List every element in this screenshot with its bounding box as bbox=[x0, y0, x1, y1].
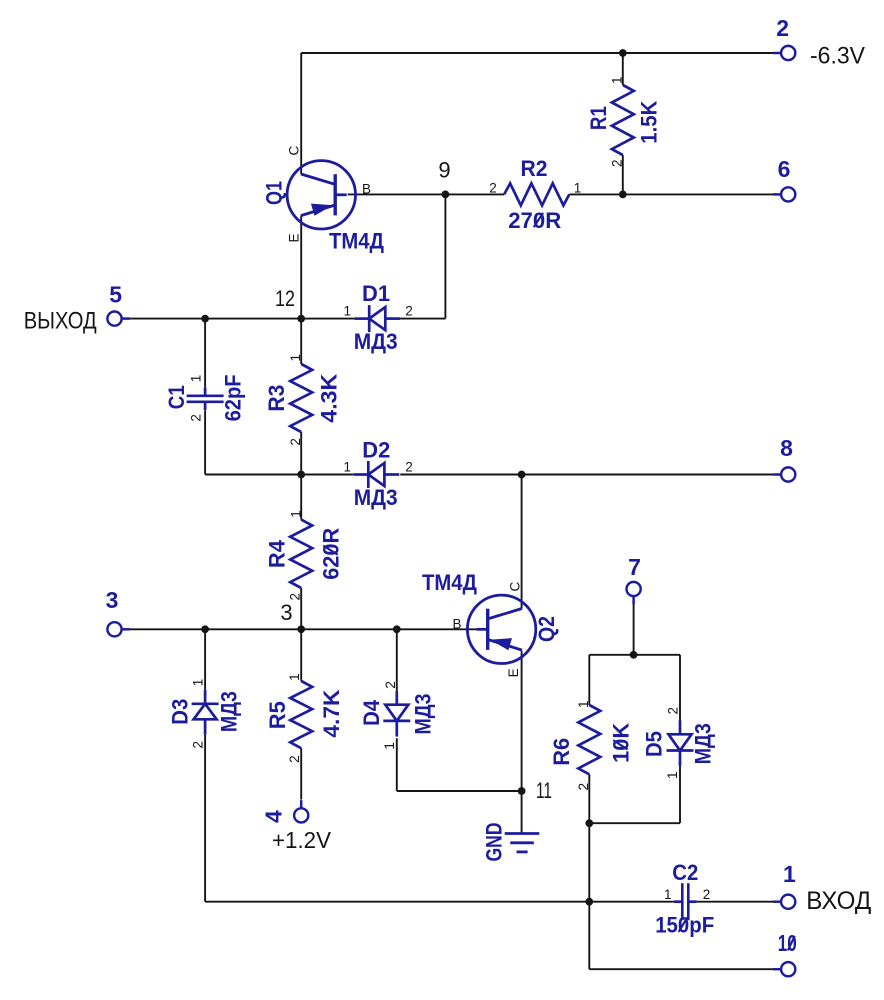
wire R6/D5 bottom rail bbox=[589, 822, 680, 824]
terminal 4 (+1.2V) bbox=[261, 800, 332, 853]
svg-text:10: 10 bbox=[778, 930, 797, 956]
capacitor C2 150pF bbox=[655, 860, 714, 938]
junction node 12 bbox=[297, 315, 305, 323]
svg-text:D4: D4 bbox=[359, 699, 384, 726]
terminal 10 bbox=[773, 930, 797, 976]
R6 ref label bbox=[549, 738, 574, 766]
terminal pad 6 bbox=[773, 193, 782, 196]
svg-text:E: E bbox=[287, 233, 302, 242]
svg-text:1: 1 bbox=[665, 771, 680, 779]
junction input net tap bbox=[585, 898, 593, 906]
wire D2 rail left part bbox=[205, 474, 354, 476]
svg-text:2: 2 bbox=[405, 460, 413, 475]
D3 ref label bbox=[168, 699, 193, 725]
R1 ref label bbox=[586, 106, 611, 130]
D1 ref label bbox=[362, 281, 390, 306]
svg-text:МД3: МД3 bbox=[411, 694, 436, 735]
terminal 2 (-6.3V) bbox=[773, 15, 865, 70]
C1 ref label bbox=[164, 385, 189, 409]
svg-text:11: 11 bbox=[536, 778, 552, 803]
wire D4 rail to node 11 bbox=[397, 790, 522, 792]
D3 pin 2 number bbox=[191, 741, 206, 749]
svg-text:-6.3V: -6.3V bbox=[810, 43, 865, 70]
resistor R3 4.3K bbox=[264, 354, 342, 446]
svg-text:R1: R1 bbox=[586, 106, 611, 130]
terminal pad 5 bbox=[121, 317, 130, 320]
C2 value 150pF label bbox=[655, 913, 714, 938]
junction node 3 bbox=[297, 625, 305, 633]
R1 pin 1 number bbox=[609, 76, 624, 84]
wire R6 to bottom rail bbox=[588, 774, 590, 823]
resistor R4 620R bbox=[264, 510, 343, 600]
wire R3 node to R4 bbox=[300, 475, 302, 520]
wire Q1 collector drop bbox=[300, 53, 302, 174]
svg-text:2: 2 bbox=[287, 755, 302, 763]
Q2 pin E name bbox=[506, 668, 521, 677]
Q2 pin B name bbox=[452, 616, 461, 631]
diode D4 MD3 bbox=[359, 681, 436, 750]
svg-text:D2: D2 bbox=[362, 437, 390, 462]
svg-text:2: 2 bbox=[776, 15, 789, 41]
svg-text:4.7K: 4.7K bbox=[319, 689, 344, 737]
junction node 11 bbox=[518, 787, 526, 795]
svg-text:2: 2 bbox=[189, 414, 204, 422]
R6 pin 2 number bbox=[576, 783, 591, 791]
svg-text:1: 1 bbox=[289, 510, 304, 518]
svg-text:1: 1 bbox=[189, 375, 204, 383]
Q2 pin C name bbox=[507, 582, 522, 592]
Q2 ref label bbox=[534, 616, 559, 642]
svg-text:ВЫХОД: ВЫХОД bbox=[24, 308, 97, 335]
D3 value MD3 label bbox=[217, 691, 242, 732]
net name +1.2V bbox=[272, 827, 332, 853]
wire input rail down to terminal 10 rail bbox=[588, 902, 590, 970]
terminal 1 (VHOD input) bbox=[773, 861, 871, 915]
svg-text:2: 2 bbox=[383, 681, 398, 689]
wire D2 rail to terminal 8 bbox=[400, 474, 773, 476]
svg-text:R4: R4 bbox=[264, 539, 289, 568]
svg-text:2: 2 bbox=[610, 159, 625, 167]
svg-text:ТМ4Д: ТМ4Д bbox=[422, 570, 477, 595]
svg-text:C1: C1 bbox=[164, 385, 189, 409]
svg-text:B: B bbox=[452, 616, 461, 631]
D2 pin 1 number bbox=[344, 460, 352, 475]
svg-text:1: 1 bbox=[783, 861, 796, 887]
terminal 1 pin number bbox=[783, 861, 796, 887]
svg-text:8: 8 bbox=[780, 435, 793, 461]
Q1 ref label bbox=[262, 181, 287, 205]
R3 pin 2 number bbox=[288, 438, 303, 446]
R5 ref label bbox=[265, 701, 290, 729]
R4 pin 1 number bbox=[289, 510, 304, 518]
GND net name label bbox=[482, 823, 507, 862]
wire C1 down to D2 rail bbox=[204, 410, 206, 474]
node 9 label bbox=[438, 158, 450, 183]
svg-text:270R: 270R bbox=[508, 208, 561, 233]
C2 pin 1 number bbox=[664, 887, 672, 902]
svg-text:R2: R2 bbox=[521, 156, 548, 181]
svg-text:C: C bbox=[287, 146, 302, 156]
node 12 label bbox=[275, 286, 295, 311]
diode D3 MD3 bbox=[168, 679, 242, 749]
svg-text:ТМ4Д: ТМ4Д bbox=[329, 228, 384, 253]
svg-text:3: 3 bbox=[106, 587, 119, 613]
svg-text:R6: R6 bbox=[549, 738, 574, 766]
R2 pin 1 number bbox=[574, 180, 582, 195]
Q1 pin E name bbox=[287, 233, 302, 242]
svg-text:1: 1 bbox=[288, 354, 303, 362]
wire terminal 8 rail down to Q2 collector bbox=[521, 475, 523, 609]
junction D3 tap bbox=[201, 625, 209, 633]
terminal 6 bbox=[773, 156, 795, 201]
D2 value MD3 label bbox=[354, 485, 398, 510]
R6 pin 1 number bbox=[576, 700, 591, 708]
svg-text:2: 2 bbox=[405, 304, 413, 319]
Q1 pin B name bbox=[362, 182, 371, 197]
R4 value 620R label bbox=[319, 528, 344, 580]
wire R5 to terminal 4 bbox=[300, 748, 302, 799]
wire bottom rail to input rail bbox=[588, 823, 590, 902]
R1 pin 2 number bbox=[610, 159, 625, 167]
svg-text:ВХОД: ВХОД bbox=[806, 887, 871, 915]
wire node down to D3 bbox=[204, 629, 206, 690]
wire D4 down to node 11 rail bbox=[396, 738, 398, 791]
transistor Q2 TM4D (PNP, mirrored) bbox=[422, 570, 559, 677]
wire terminal 10 rail bbox=[589, 968, 773, 970]
wire D5 to bottom rail bbox=[679, 766, 681, 823]
wire R3 to D2 rail bbox=[300, 432, 302, 475]
svg-text:3: 3 bbox=[280, 600, 292, 625]
wire R2 to terminal 6 bbox=[569, 193, 773, 195]
C2 pin 2 number bbox=[703, 887, 711, 902]
wire R1 to terminal 6 rail bbox=[622, 155, 624, 194]
D4 pin 1 number bbox=[382, 742, 397, 750]
wire C2 to terminal 1 bbox=[697, 901, 774, 903]
resistor R2 270R bbox=[489, 156, 581, 233]
svg-text:МД3: МД3 bbox=[354, 485, 398, 510]
wire D3 down to input rail bbox=[204, 735, 206, 902]
svg-text:2: 2 bbox=[191, 741, 206, 749]
diode D5 MD3 bbox=[642, 707, 716, 779]
diode D2 MD3 bbox=[344, 437, 413, 510]
terminal 6 pin number bbox=[778, 156, 791, 182]
wire D1 to corner bbox=[400, 318, 445, 320]
C1 pin 1 number bbox=[189, 375, 204, 383]
terminal pad 1 bbox=[773, 900, 782, 903]
terminal 5 (VYHOD output) bbox=[24, 281, 130, 334]
net name VHOD (input) bbox=[806, 887, 871, 915]
R5 value 4.7K label bbox=[319, 689, 344, 737]
wire input rail left of C2 bbox=[205, 901, 674, 903]
svg-text:R5: R5 bbox=[265, 701, 290, 729]
svg-text:620R: 620R bbox=[319, 528, 344, 580]
svg-text:Q2: Q2 bbox=[534, 616, 559, 642]
D1 pin 2 number bbox=[405, 304, 413, 319]
R5 pin 1 number bbox=[287, 673, 302, 681]
wire node 3 down to R5 bbox=[300, 629, 302, 681]
net name -6.3V bbox=[810, 43, 865, 70]
terminal pad 4 bbox=[300, 800, 303, 809]
svg-text:МД3: МД3 bbox=[691, 723, 716, 764]
terminal 3 pin number bbox=[106, 587, 119, 613]
terminal 4 pin number bbox=[261, 810, 287, 823]
junction R6 bottom rail bbox=[585, 819, 593, 827]
svg-text:2: 2 bbox=[666, 707, 681, 715]
wire output node down to C1 bbox=[204, 319, 206, 388]
wire node down to D4 bbox=[396, 629, 398, 691]
svg-text:6: 6 bbox=[778, 156, 791, 182]
terminal 2 pin number bbox=[776, 15, 789, 41]
svg-text:1: 1 bbox=[576, 700, 591, 708]
svg-text:1: 1 bbox=[191, 679, 206, 687]
svg-text:1: 1 bbox=[609, 76, 624, 84]
svg-text:2: 2 bbox=[489, 180, 497, 195]
R2 value 270R label bbox=[508, 208, 561, 233]
terminal pad 8 bbox=[773, 473, 782, 476]
wire terminal 3 row to Q2 base bbox=[129, 628, 476, 630]
wire R4 to node 3 bbox=[300, 588, 302, 629]
svg-text:1: 1 bbox=[344, 460, 352, 475]
svg-text:1: 1 bbox=[664, 887, 672, 902]
R6 value 10K label bbox=[608, 723, 633, 763]
wire top rail to R1 bbox=[622, 53, 624, 85]
D2 ref label bbox=[362, 437, 390, 462]
C2 ref label bbox=[672, 860, 698, 885]
svg-text:2: 2 bbox=[288, 438, 303, 446]
node 3 label bbox=[280, 600, 292, 625]
R4 ref label bbox=[264, 539, 289, 568]
svg-text:МД3: МД3 bbox=[217, 691, 242, 732]
C1 value 62pF label bbox=[221, 374, 246, 421]
R5 pin 2 number bbox=[287, 755, 302, 763]
svg-text:Q1: Q1 bbox=[262, 181, 287, 205]
svg-text:C2: C2 bbox=[672, 860, 698, 885]
wire Q2 emitter down to GND bbox=[521, 651, 523, 833]
svg-text:D3: D3 bbox=[168, 699, 193, 725]
D1 value MD3 label bbox=[354, 329, 398, 354]
wire terminal 7 drop bbox=[633, 604, 635, 655]
resistor R6 10K bbox=[549, 700, 633, 790]
svg-text:9: 9 bbox=[438, 158, 450, 183]
terminal pad 3 bbox=[121, 628, 130, 631]
terminal pad 7 bbox=[632, 595, 635, 604]
terminal 8 bbox=[773, 435, 795, 482]
svg-text:1: 1 bbox=[287, 673, 302, 681]
junction node 9 bbox=[442, 191, 450, 199]
wire node 9 down to D1 bbox=[444, 194, 446, 318]
capacitor C1 62pF bbox=[164, 374, 246, 421]
C1 pin 2 number bbox=[189, 414, 204, 422]
svg-text:+1.2V: +1.2V bbox=[272, 827, 332, 853]
R2 pin 2 number bbox=[489, 180, 497, 195]
svg-text:R3: R3 bbox=[264, 385, 289, 412]
wire rail to R6 bbox=[588, 655, 590, 705]
svg-text:4.3K: 4.3K bbox=[317, 374, 342, 423]
svg-text:2: 2 bbox=[576, 783, 591, 791]
terminal pad 2 bbox=[773, 52, 782, 55]
R3 ref label bbox=[264, 385, 289, 412]
wire R6/D5 top rail bbox=[589, 654, 680, 656]
R1 value 1.5K label bbox=[637, 101, 662, 144]
R2 ref label bbox=[521, 156, 548, 181]
Q2 value TM4D label bbox=[422, 570, 477, 595]
svg-text:C: C bbox=[507, 582, 522, 592]
junction Q2 collector tap bbox=[518, 471, 526, 479]
junction C1 tap on output net bbox=[201, 315, 209, 323]
svg-text:МД3: МД3 bbox=[354, 329, 398, 354]
terminal 5 pin number bbox=[109, 281, 122, 307]
svg-text:1.5K: 1.5K bbox=[637, 101, 662, 144]
resistor R5 4.7K bbox=[265, 673, 344, 763]
D5 ref label bbox=[642, 731, 667, 757]
svg-text:GND: GND bbox=[482, 823, 507, 862]
Q1 value TM4D label bbox=[329, 228, 384, 253]
D5 pin 2 number bbox=[666, 707, 681, 715]
R3 pin 1 number bbox=[288, 354, 303, 362]
junction terminal 7 rail bbox=[630, 651, 638, 659]
svg-text:B: B bbox=[362, 182, 371, 197]
net name VYHOD (output) bbox=[24, 308, 97, 335]
wire terminal 5 to D1 anode bbox=[129, 318, 354, 320]
svg-text:10K: 10K bbox=[608, 723, 633, 763]
svg-text:E: E bbox=[506, 668, 521, 677]
terminal pad 10 bbox=[773, 968, 782, 971]
terminal 8 pin number bbox=[780, 435, 793, 461]
R4 pin 2 number bbox=[288, 593, 303, 601]
R3 value 4.3K label bbox=[317, 374, 342, 423]
svg-text:D1: D1 bbox=[362, 281, 390, 306]
ground symbol GND bbox=[482, 823, 540, 862]
svg-text:150pF: 150pF bbox=[655, 913, 714, 938]
terminal 7 bbox=[627, 554, 641, 604]
D2 pin 2 number bbox=[405, 460, 413, 475]
junction R1 bottom bbox=[619, 191, 627, 199]
D5 pin 1 number bbox=[665, 771, 680, 779]
svg-text:1: 1 bbox=[574, 180, 582, 195]
D3 pin 1 number bbox=[191, 679, 206, 687]
wire top rail -6.3V net bbox=[301, 52, 773, 54]
terminal 10 pin number bbox=[778, 930, 797, 956]
diode D1 MD3 bbox=[344, 281, 413, 354]
svg-text:1: 1 bbox=[382, 742, 397, 750]
transistor Q1 TM4D (PNP) bbox=[262, 146, 385, 254]
svg-text:D5: D5 bbox=[642, 731, 667, 757]
svg-text:4: 4 bbox=[261, 810, 287, 823]
D1 pin 1 number bbox=[344, 304, 352, 319]
svg-text:12: 12 bbox=[275, 286, 295, 311]
svg-text:7: 7 bbox=[628, 554, 641, 580]
D4 pin 2 number bbox=[383, 681, 398, 689]
terminal 3 bbox=[106, 587, 130, 636]
resistor R1 1.5K bbox=[586, 76, 662, 167]
D4 value MD3 label bbox=[411, 694, 436, 735]
svg-text:2: 2 bbox=[703, 887, 711, 902]
junction R3/R4 tap bbox=[297, 471, 305, 479]
svg-text:5: 5 bbox=[109, 281, 122, 307]
svg-text:62pF: 62pF bbox=[221, 374, 246, 421]
Q1 pin C name bbox=[287, 146, 302, 156]
junction R1 top bbox=[619, 49, 627, 57]
node 11 label bbox=[536, 778, 552, 803]
terminal 7 pin number bbox=[628, 554, 641, 580]
svg-text:1: 1 bbox=[344, 304, 352, 319]
junction D4 tap bbox=[393, 625, 401, 633]
wire Q1 base to R2 bbox=[348, 193, 505, 195]
wire rail to D5 bbox=[679, 655, 681, 721]
wire Q1 emitter to R3 bbox=[300, 216, 302, 364]
D5 value MD3 label bbox=[691, 723, 716, 764]
D4 ref label bbox=[359, 699, 384, 726]
